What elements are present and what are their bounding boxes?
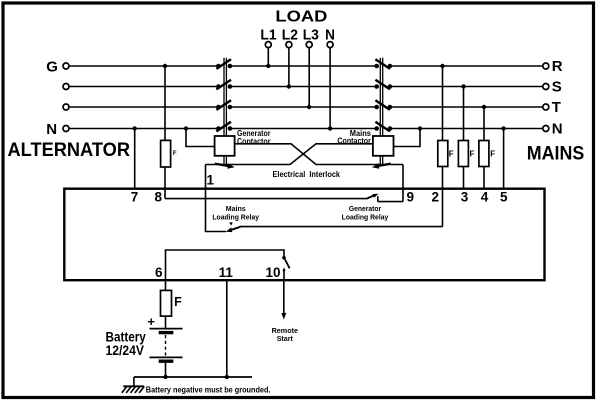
junction load N/row N	[328, 126, 332, 130]
terminal alt N	[63, 126, 69, 132]
wire L3 drop	[308, 48, 310, 107]
generator contactor pole row T	[216, 100, 232, 110]
label ALTERNATOR	[8, 139, 131, 161]
pin 10 label	[265, 265, 280, 280]
generator contactor pole row G	[216, 59, 232, 69]
terminal alt phase 3	[63, 104, 69, 110]
fuse F (mains T, pin 4)	[479, 141, 495, 167]
wire load N drop	[329, 48, 331, 129]
label MAINS	[527, 143, 585, 165]
label Generator Loading Relay	[342, 204, 389, 221]
svg-text:F: F	[490, 150, 495, 159]
junction N row to pin 7	[133, 126, 137, 130]
mains loading relay contact	[226, 222, 241, 232]
terminal T	[543, 104, 549, 110]
generator loading relay contact	[367, 194, 379, 202]
wire T row to fuse F4	[483, 107, 485, 141]
label Mains Contactor	[337, 128, 371, 146]
terminal alt phase 2	[63, 84, 69, 90]
svg-text:1: 1	[207, 173, 215, 188]
mains contactor pole row N	[374, 122, 392, 132]
pin 6 label	[155, 265, 163, 280]
terminal S	[543, 84, 549, 90]
wire R row to fuse F2	[442, 66, 444, 141]
wire N row to pin 7	[134, 129, 136, 190]
label N mains	[552, 121, 563, 138]
terminal G	[63, 63, 69, 69]
junction L2/row S	[287, 84, 291, 88]
svg-text:Battery negative must be groun: Battery negative must be grounded.	[146, 384, 271, 394]
junction battery/rail	[163, 375, 167, 379]
wire row S	[69, 86, 543, 88]
wire mains loading relay to pin 2	[240, 226, 443, 228]
label N alternator	[46, 121, 57, 138]
wire fuse F2 to pin 2 and inner drop	[442, 167, 444, 227]
svg-text:10: 10	[265, 265, 280, 280]
wire pin 8 to generator loading relay	[165, 198, 368, 200]
svg-text:N: N	[325, 26, 335, 43]
wire fuse F6 to battery +	[165, 316, 167, 328]
label battery ground note	[146, 384, 271, 394]
fuse F (mains R, pin 2)	[438, 141, 454, 167]
svg-text:T: T	[552, 99, 561, 116]
pin 2 label	[431, 190, 439, 205]
wire L1 drop	[267, 48, 269, 66]
junction pin11/rail	[225, 375, 229, 379]
wire battery - to ground rail	[165, 363, 167, 378]
generator contactor pole row S	[216, 80, 232, 90]
svg-text:Loading Relay: Loading Relay	[212, 212, 259, 221]
wire pin 1 (gen aux to mains loading relay)	[206, 165, 227, 232]
wire row N	[69, 128, 543, 130]
label Mains Loading Relay	[212, 204, 259, 221]
generator contactor pole row N	[216, 122, 232, 132]
svg-text:F: F	[449, 150, 454, 159]
label R	[552, 58, 563, 75]
svg-text:L3: L3	[303, 26, 319, 43]
junction L3/row T	[307, 105, 311, 109]
terminal label L2	[282, 26, 298, 43]
wire L2 drop	[288, 48, 290, 87]
svg-text:2: 2	[431, 190, 439, 205]
svg-text:N: N	[552, 121, 563, 138]
wire pin 9 to mains aux	[402, 165, 404, 202]
generator contactor aux contact	[215, 163, 235, 168]
label Generator Contactor	[237, 128, 271, 146]
wire DC loop pin 6 to remote switch	[166, 250, 285, 280]
terminal label N (load neutral)	[325, 26, 335, 43]
wire fuse F3 to pin 3	[463, 167, 465, 190]
wire pin 6 to fuse F6	[165, 280, 167, 291]
terminal label L3	[303, 26, 319, 43]
label G	[46, 59, 58, 76]
label Battery 12/24V	[106, 330, 147, 358]
svg-text:S: S	[552, 79, 562, 96]
junction R row to fuse F2	[440, 64, 444, 68]
pin 11 label	[219, 265, 234, 280]
svg-text:G: G	[46, 59, 58, 76]
fuse F (mains S, pin 3)	[458, 141, 474, 167]
junction gen coil to row N	[184, 126, 188, 130]
pin 9 label	[407, 190, 415, 205]
label T	[552, 99, 561, 116]
fuse F (generator, pin 8)	[161, 140, 177, 167]
wire generator loading relay to pin 9	[378, 201, 403, 203]
svg-text:+: +	[147, 314, 155, 329]
junction T row to fuse F4	[482, 105, 486, 109]
ground	[122, 377, 144, 393]
pin 1 label	[207, 173, 215, 188]
svg-text:R: R	[552, 58, 563, 75]
mains contactor K2 linkage	[380, 58, 382, 166]
mains contactor aux contact	[372, 163, 391, 168]
wire N row to pin 5	[503, 129, 505, 190]
svg-text:Start: Start	[277, 334, 294, 343]
svg-text:12/24V: 12/24V	[106, 343, 145, 358]
terminal mains N	[543, 126, 549, 132]
svg-text:L2: L2	[282, 26, 298, 43]
terminal L3	[306, 42, 312, 48]
svg-text:F: F	[173, 151, 177, 157]
terminal R	[543, 63, 549, 69]
label S	[552, 79, 562, 96]
generator contactor K1 linkage	[224, 58, 226, 166]
svg-text:9: 9	[407, 190, 415, 205]
wire fuse F8 to pin 8	[164, 167, 166, 199]
mains contactor pole row S	[374, 80, 392, 90]
battery BT1 12/24V	[147, 314, 182, 361]
svg-text:6: 6	[155, 265, 163, 280]
ground rail	[134, 376, 252, 378]
label Electrical Interlock	[273, 169, 341, 179]
svg-text:LOAD: LOAD	[275, 9, 327, 26]
terminal L1	[265, 42, 271, 48]
svg-text:11: 11	[219, 265, 234, 280]
mains contactor pole row T	[374, 100, 392, 110]
terminal L2	[286, 42, 292, 48]
svg-text:4: 4	[481, 190, 489, 205]
svg-text:ALTERNATOR: ALTERNATOR	[8, 139, 131, 161]
pin 3 label	[461, 190, 469, 205]
generator contactor coil	[215, 136, 235, 156]
terminal label L1	[260, 26, 276, 43]
fuse F (battery, pin 6)	[161, 290, 183, 316]
junction G row to fuse F8	[163, 64, 167, 68]
svg-text:N: N	[46, 121, 57, 138]
svg-text:8: 8	[154, 190, 162, 205]
wire fuse F4 to pin 4	[483, 167, 485, 190]
svg-text:5: 5	[500, 190, 508, 205]
svg-text:Contactor: Contactor	[237, 136, 271, 146]
wire pin 10 remote start lead	[281, 280, 286, 320]
wire S row to fuse F3	[463, 87, 465, 141]
wire mains coil right to N	[394, 129, 421, 147]
wire row G	[69, 65, 543, 67]
title LOAD	[275, 9, 327, 26]
wire interlock pin1/gen aux to mains coil (lower-left to upper-right)	[206, 144, 373, 165]
remote start switch	[282, 256, 289, 280]
junction L1/row G	[266, 64, 270, 68]
wire gen coil left to N	[186, 129, 215, 147]
pin 4 label	[481, 190, 489, 205]
junction mains coil to row N	[418, 126, 422, 130]
wire row T	[69, 106, 543, 108]
svg-text:L1: L1	[260, 26, 276, 43]
pin 5 label	[500, 190, 508, 205]
svg-text:3: 3	[461, 190, 469, 205]
junction N row to pin 5	[501, 126, 505, 130]
svg-text:7: 7	[131, 190, 139, 205]
wire G row to fuse F8	[164, 66, 166, 140]
mains contactor coil	[373, 136, 394, 156]
label Remote Start	[272, 326, 298, 343]
svg-text:MAINS: MAINS	[527, 143, 585, 165]
pin 8 label	[154, 190, 162, 205]
svg-text:Loading Relay: Loading Relay	[342, 212, 389, 221]
controller box U1	[64, 189, 544, 281]
svg-text:Electrical Interlock: Electrical Interlock	[273, 169, 341, 179]
mains contactor pole row R	[374, 59, 392, 69]
wire pin 11 to ground rail	[226, 280, 228, 378]
pin 7 label	[131, 190, 139, 205]
wire interlock gen coil to mains aux (upper-left to lower-right)	[235, 144, 403, 165]
svg-text:F: F	[470, 150, 475, 159]
svg-text:F: F	[174, 295, 182, 309]
junction S row to fuse F3	[461, 84, 465, 88]
terminal N load	[327, 42, 333, 48]
